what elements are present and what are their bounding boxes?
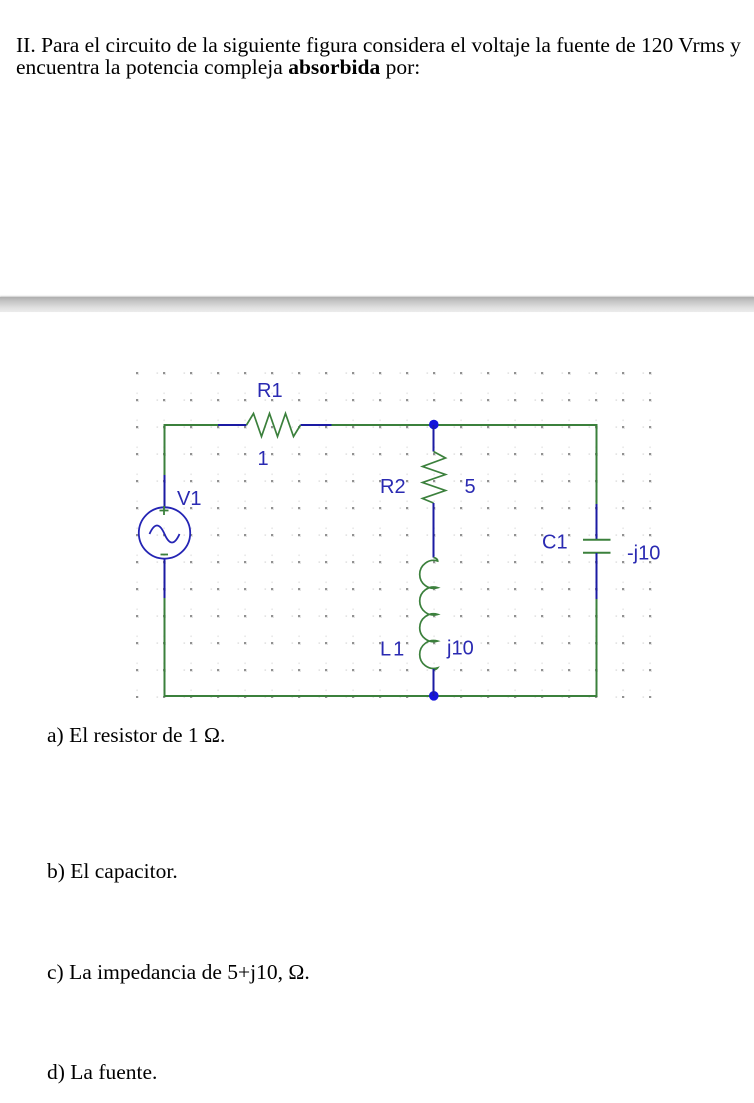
svg-text:R2: R2 <box>380 476 406 498</box>
capacitor C1 lead bottom <box>596 553 598 599</box>
source V1 sine wave <box>150 526 180 543</box>
svg-text:R1: R1 <box>257 380 283 402</box>
wire left vertical upper <box>164 424 166 475</box>
wire right vertical lower <box>596 599 598 697</box>
capacitor C1 plates <box>583 540 611 553</box>
item c <box>47 961 310 983</box>
resistor R1 lead right <box>301 424 332 426</box>
svg-text:-j10: -j10 <box>627 543 660 565</box>
resistor R1 lead left <box>218 424 247 426</box>
item a <box>47 724 225 746</box>
node junction bottom <box>429 691 439 701</box>
svg-text:C1: C1 <box>542 532 568 554</box>
svg-text:V1: V1 <box>177 488 201 510</box>
svg-text:L1: L1 <box>380 639 406 661</box>
wire left vertical lower <box>164 598 166 697</box>
source V1 circle <box>139 507 190 558</box>
svg-text:5: 5 <box>465 476 476 498</box>
wire R2 to L1 <box>433 503 435 558</box>
resistor R2 zigzag <box>423 452 446 504</box>
source V1 plus sign <box>160 506 169 515</box>
inductor L1 coil <box>420 558 438 671</box>
wire bottom horizontal <box>164 695 598 697</box>
resistor R2 lead top <box>433 425 435 452</box>
svg-text:1: 1 <box>258 448 269 470</box>
inductor L1 lead bottom <box>433 669 435 696</box>
wire top-left horizontal <box>164 424 219 426</box>
svg-text:j10: j10 <box>446 638 474 660</box>
item d <box>47 1061 157 1083</box>
problem statement paragraph <box>16 34 741 78</box>
source V1 minus sign <box>161 554 169 556</box>
wire top-right horizontal <box>332 424 598 426</box>
capacitor C1 lead top <box>596 504 598 539</box>
grid dots <box>134 370 652 698</box>
resistor R1 zigzag <box>247 414 301 437</box>
source V1 lead bottom <box>164 558 166 598</box>
node junction top <box>429 420 439 430</box>
wire right vertical upper <box>596 424 598 504</box>
gray divider bar <box>0 297 754 312</box>
source V1 lead top <box>164 475 166 508</box>
item b <box>47 860 178 882</box>
